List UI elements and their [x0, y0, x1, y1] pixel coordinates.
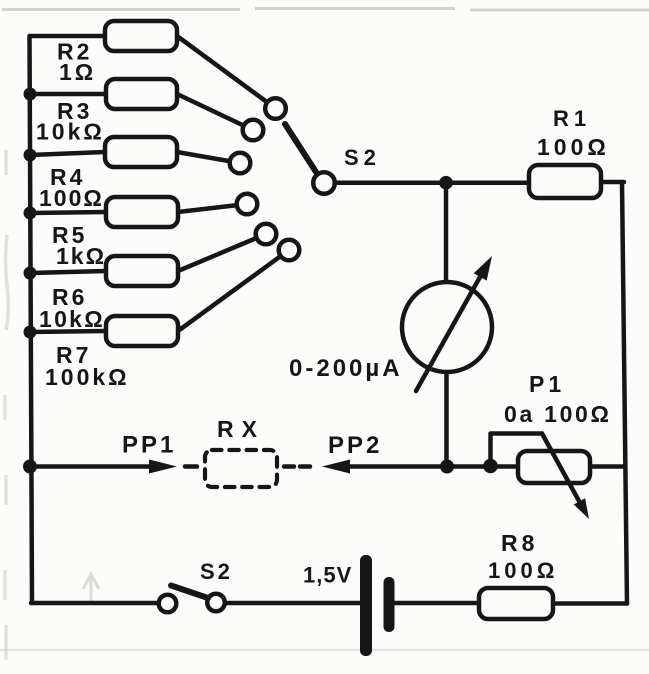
junction node left rail R6	[24, 267, 37, 280]
wire meter bottom branch	[444, 371, 449, 467]
svg-text:RX: RX	[217, 416, 265, 442]
resistor R7	[106, 316, 178, 346]
wire R1 right to rail	[601, 180, 624, 185]
switch S2 contact 2	[243, 120, 264, 141]
resistor R5	[106, 197, 178, 227]
svg-text:R8: R8	[501, 530, 538, 556]
scan artifact left edge marks	[5, 150, 8, 660]
svg-text:0a 100Ω: 0a 100Ω	[504, 401, 612, 427]
junction node left rail R3	[24, 88, 37, 101]
wire right rail	[622, 182, 627, 604]
svg-text:100kΩ: 100kΩ	[45, 364, 130, 390]
wire R4 branch	[30, 152, 105, 155]
switch S2 contact 1	[265, 98, 286, 119]
switch S2 contact 4	[237, 194, 258, 215]
svg-text:R1: R1	[553, 106, 591, 131]
junction node left rail R4	[24, 149, 37, 162]
meter arrow	[416, 277, 480, 391]
switch S2 contact 3	[230, 153, 251, 174]
switch S2 bottom contact left	[159, 595, 177, 613]
junction node left rail R5	[24, 207, 37, 220]
battery B1 short plate	[384, 577, 395, 632]
junction node left rail middle wire	[23, 460, 37, 474]
resistor R4	[105, 137, 177, 167]
switch S2 bottom contact right	[207, 594, 225, 612]
switch S2 pivot	[313, 172, 335, 194]
wire R3 to contact 2	[177, 94, 253, 130]
junction node meter bottom	[440, 460, 454, 474]
svg-text:100Ω: 100Ω	[488, 558, 558, 583]
resistor R6	[106, 256, 178, 286]
wire R2 to contact 1	[177, 36, 275, 108]
battery B1 long plate	[360, 555, 372, 656]
probe PP2 arrow head	[322, 460, 350, 474]
wire bottom rail	[31, 601, 158, 606]
wire R6 to contact 5	[178, 234, 266, 271]
svg-text:100Ω: 100Ω	[39, 185, 104, 211]
wire R8 to bottom right corner	[553, 601, 627, 606]
wire R3 branch	[30, 92, 106, 97]
junction node P1 bypass	[483, 459, 498, 474]
resistor R1	[529, 165, 601, 198]
wire R5 to contact 4	[178, 204, 247, 212]
resistor R2	[105, 21, 177, 51]
svg-text:S2: S2	[344, 145, 381, 170]
svg-text:1,5V: 1,5V	[303, 563, 352, 588]
potentiometer P1 wiper bypass wire	[491, 434, 543, 467]
RX dashed box	[205, 450, 277, 487]
wire R7 to contact 6	[178, 250, 289, 331]
meter M1 0-200uA	[402, 282, 492, 372]
svg-text:PP2: PP2	[328, 432, 382, 459]
svg-text:1Ω: 1Ω	[59, 59, 96, 85]
scan artifact bottom streak	[0, 649, 649, 652]
svg-text:1kΩ: 1kΩ	[56, 243, 106, 269]
wire P1 right to rail	[590, 464, 625, 469]
wire left rail	[30, 36, 33, 601]
wire meter top branch	[444, 182, 449, 283]
wire pivot to junction A	[334, 180, 529, 185]
svg-text:10kΩ: 10kΩ	[36, 119, 105, 145]
wire middle left to PP1 arrow	[30, 464, 153, 469]
potentiometer P1 wiper arrow shaft	[542, 434, 579, 502]
potentiometer P1 wiper arrow head	[574, 498, 589, 519]
svg-text:S2: S2	[200, 559, 233, 584]
svg-text:0-200µA: 0-200µA	[289, 355, 403, 382]
resistor R8	[479, 588, 553, 619]
svg-text:PP1: PP1	[122, 432, 176, 459]
wire R6 branch	[30, 271, 106, 273]
svg-text:100Ω: 100Ω	[537, 134, 610, 160]
wire PP2 shaft to P1	[349, 464, 518, 469]
wire R7 branch	[30, 331, 106, 332]
resistor R3	[106, 79, 177, 109]
scan artifact faint arrow lower left	[83, 574, 99, 603]
svg-text:P1: P1	[529, 371, 565, 397]
wire bottom battery left	[225, 601, 360, 606]
RX dash right	[284, 464, 310, 469]
wire bottom battery right to R8	[394, 601, 479, 606]
wire R5 branch	[30, 212, 106, 213]
switch S2 contact 5	[256, 224, 277, 245]
probe PP1 arrow head	[149, 460, 177, 474]
wire R2 branch	[30, 34, 105, 39]
switch S2 bottom lever	[171, 586, 208, 599]
switch S2 contact 6	[279, 240, 300, 261]
meter arrow head	[474, 256, 492, 281]
junction node left rail R7	[24, 326, 37, 339]
svg-text:10kΩ: 10kΩ	[39, 306, 105, 332]
wire R4 to contact 3	[177, 152, 240, 163]
junction node meter top	[439, 176, 453, 190]
RX dash left	[185, 464, 197, 469]
potentiometer P1 body	[518, 451, 590, 483]
scan artifact top streak	[2, 9, 649, 11]
switch S2 lever	[285, 124, 316, 172]
